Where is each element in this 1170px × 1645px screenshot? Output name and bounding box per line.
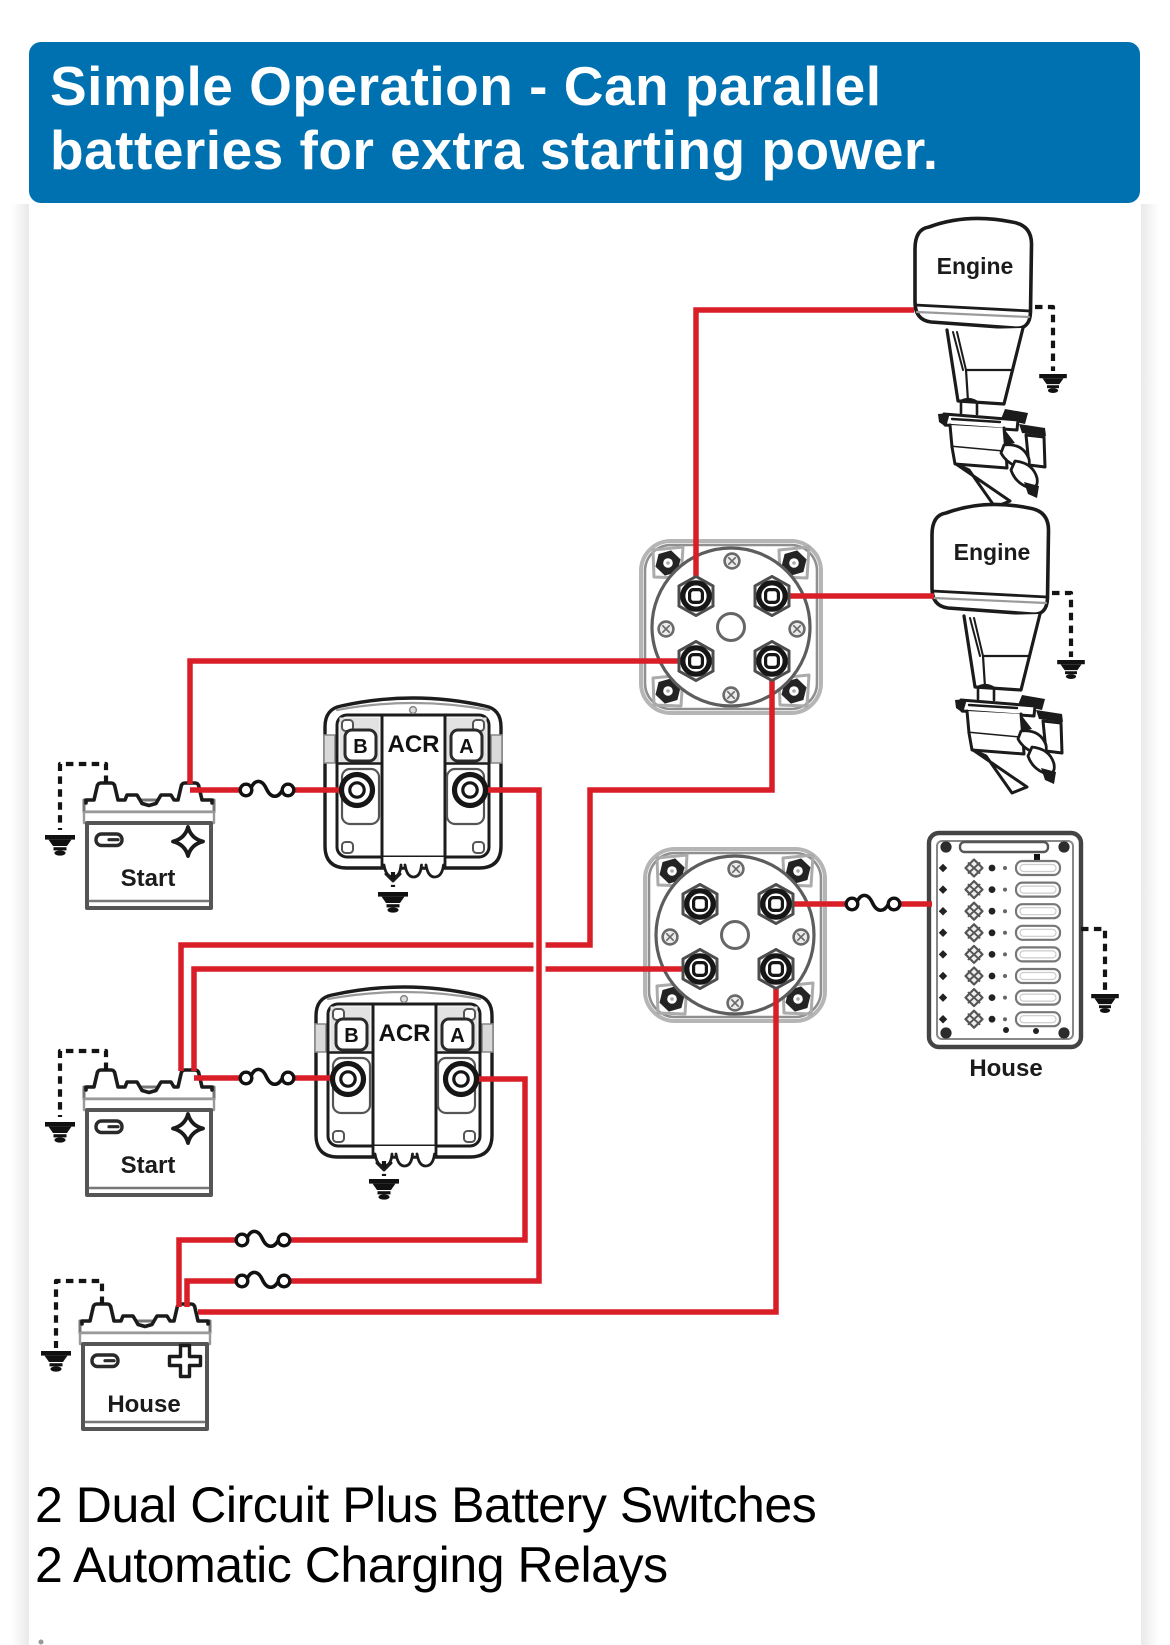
wire: switch S2 stud4 down then left to battery B3 + bbox=[198, 969, 776, 1312]
svg-text:House: House bbox=[969, 1055, 1042, 1082]
wire: ACR U2 terminal A down to fuse F3 bbox=[290, 1079, 525, 1240]
svg-text:House: House bbox=[107, 1391, 180, 1418]
wire: battery B2 + to fuse F2 bbox=[194, 1075, 240, 1081]
stray mark bottom left bbox=[39, 1640, 44, 1645]
fuse F5 bbox=[846, 895, 900, 910]
dashed wire: ACR U2 to ground bbox=[382, 1161, 386, 1176]
engine E1 (top outboard) bbox=[915, 218, 1046, 507]
switch S2 studs overlay bbox=[683, 885, 793, 989]
fuse F2 bbox=[240, 1069, 294, 1084]
engine E2 (lower outboard) bbox=[932, 504, 1063, 793]
dashed wire: battery B3 - to ground bbox=[56, 1281, 102, 1348]
card left edge shadow bbox=[11, 204, 29, 1645]
battery switch S1 body bbox=[641, 541, 821, 713]
wire: fuse F5 to house panel bbox=[900, 901, 932, 907]
svg-text:Start: Start bbox=[121, 1152, 176, 1179]
dashed wire: ACR U1 to ground bbox=[391, 872, 395, 887]
wire: switch S2 stud3 left to crossover bbox=[546, 966, 701, 972]
battery B2 (Start) bbox=[84, 1070, 214, 1195]
dashed wire: engine E2 to ground bbox=[1052, 593, 1071, 657]
header banner bbox=[29, 42, 1140, 203]
ground engine E1 bbox=[1039, 374, 1067, 393]
fuse F4 bbox=[236, 1272, 290, 1287]
wire: switch S1 stud3 left then down to battery B1 + bbox=[190, 661, 696, 784]
house distribution panel bbox=[929, 833, 1081, 1047]
fuse F1 bbox=[240, 781, 294, 796]
caption text bbox=[35, 1475, 816, 1595]
wire: switch S1 stud1 up and right to engine E1 bbox=[696, 310, 914, 596]
ACR U2 terminals overlay bbox=[333, 1064, 364, 1095]
red wires bbox=[179, 310, 934, 1312]
dashed wire: house panel to ground bbox=[1081, 929, 1105, 991]
wire: ACR U1 terminal A down to fuse F4 bbox=[290, 790, 539, 1281]
wire: switch S2 stud2 right to fuse F5 bbox=[776, 901, 846, 907]
switch S1 studs overlay bbox=[679, 577, 789, 681]
card right edge shadow bbox=[1141, 204, 1159, 1645]
battery B3 plus cross bbox=[166, 1346, 204, 1380]
dashed wire: engine E1 to ground bbox=[1035, 307, 1053, 371]
dashed ground wires bbox=[56, 307, 1105, 1348]
wire: battery B1 + to fuse F1 bbox=[190, 787, 240, 793]
ground battery B1 bbox=[45, 835, 75, 856]
battery switch S2 body bbox=[645, 849, 825, 1021]
ground ACR U2 bbox=[369, 1179, 399, 1200]
ground engine E2 bbox=[1057, 660, 1085, 679]
ground battery B3 bbox=[41, 1351, 71, 1372]
ACR U2 body bbox=[315, 987, 493, 1170]
wire: continuation to battery B2 + after crossover bbox=[181, 945, 534, 1071]
ACR U1 terminals overlay bbox=[342, 775, 373, 806]
svg-text:Start: Start bbox=[121, 865, 176, 892]
ground house panel bbox=[1091, 994, 1119, 1013]
dashed wire: battery B2 - to ground bbox=[60, 1051, 106, 1117]
battery B3 (House) bbox=[80, 1304, 210, 1429]
fuse F3 bbox=[236, 1231, 290, 1246]
wire: fuse F2 to ACR U2 terminal B bbox=[294, 1075, 348, 1081]
ground ACR U1 bbox=[378, 892, 408, 913]
ACR U1 body bbox=[324, 698, 502, 881]
wire: switch S1 stud4 down left down to battery B2 + bbox=[546, 663, 773, 945]
wire: continuation to battery B2 + bbox=[194, 969, 534, 1071]
wire: fuse F1 to ACR U1 terminal B bbox=[294, 787, 357, 793]
ground battery B2 bbox=[45, 1122, 75, 1143]
wire: fuse F4 to battery B3 + bbox=[187, 1281, 236, 1307]
dashed wire: battery B1 - to ground bbox=[60, 764, 106, 830]
wire: fuse F3 to battery B3 + bbox=[179, 1240, 236, 1307]
battery B1 (Start) bbox=[84, 783, 214, 908]
wire: switch S1 stud2 right to engine E2 bbox=[772, 593, 934, 599]
